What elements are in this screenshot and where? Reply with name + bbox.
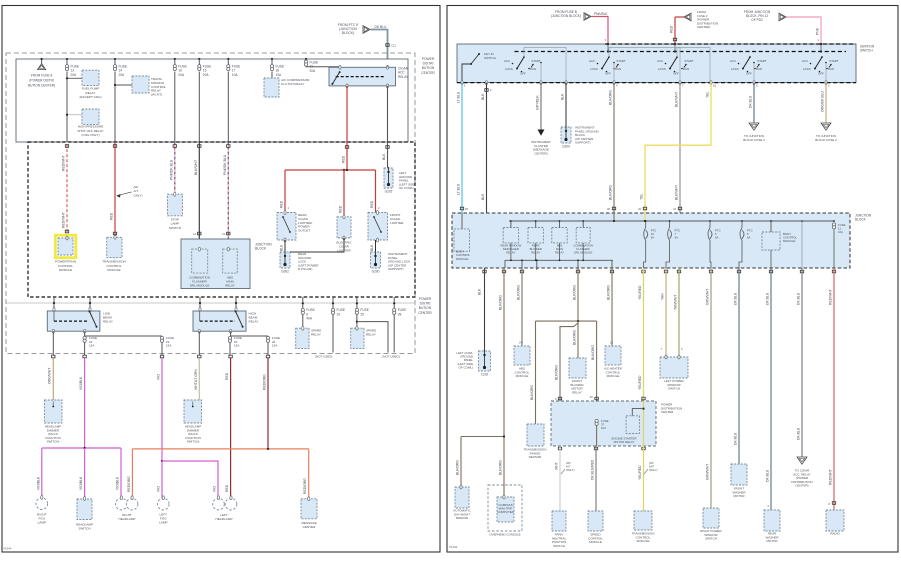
- svg-text:WHT: WHT: [555, 462, 559, 470]
- svg-text:BLK/ORG: BLK/ORG: [456, 460, 460, 475]
- svg-text:VIO/BLK: VIO/BLK: [79, 376, 83, 390]
- svg-text:DK BLU: DK BLU: [734, 432, 738, 445]
- svg-text:BLK/WHT: BLK/WHT: [194, 160, 198, 175]
- svg-text:PNK/DK BLU: PNK/DK BLU: [169, 159, 173, 180]
- svg-text:RED/WHT: RED/WHT: [829, 469, 833, 485]
- svg-text:ACC: ACC: [504, 59, 510, 63]
- svg-text:RED/ORG: RED/ORG: [263, 374, 267, 390]
- svg-text:WHT/LT GRN: WHT/LT GRN: [194, 369, 198, 390]
- svg-text:LOCK: LOCK: [590, 67, 598, 71]
- svg-text:RED/WHT: RED/WHT: [62, 212, 66, 228]
- svg-text:DK BLU: DK BLU: [749, 95, 753, 108]
- svg-text:DK BLU: DK BLU: [797, 292, 801, 305]
- svg-text:RED: RED: [280, 200, 284, 208]
- svg-text:G202: G202: [385, 190, 393, 194]
- svg-text:GRY/BLK: GRY/BLK: [536, 95, 540, 110]
- svg-text:BLK: BLK: [382, 153, 386, 160]
- svg-text:ACC: ACC: [589, 59, 595, 63]
- svg-text:RUN: RUN: [615, 67, 621, 71]
- svg-text:RUN: RUN: [756, 67, 762, 71]
- svg-text:RED: RED: [225, 372, 229, 380]
- svg-text:LT BLU: LT BLU: [457, 183, 461, 195]
- svg-text:START: START: [531, 59, 540, 63]
- svg-text:RUN: RUN: [828, 67, 834, 71]
- svg-text:DK BLU: DK BLU: [375, 25, 388, 29]
- svg-text:RED: RED: [110, 212, 114, 220]
- svg-text:(NOT USED): (NOT USED): [382, 355, 399, 359]
- svg-text:RED: RED: [225, 484, 229, 492]
- svg-text:76344: 76344: [3, 547, 12, 551]
- svg-text:DK BLU: DK BLU: [766, 292, 770, 305]
- svg-text:TO JUNCTIONBLOCK FUSE 3: TO JUNCTIONBLOCK FUSE 3: [743, 134, 765, 142]
- svg-text:TAN/WHT: TAN/WHT: [674, 295, 678, 310]
- svg-text:PNK/BLK: PNK/BLK: [594, 12, 608, 16]
- svg-text:10: 10: [713, 84, 717, 88]
- svg-text:LOCK: LOCK: [803, 67, 811, 71]
- svg-text:ORG/DK BLU: ORG/DK BLU: [821, 91, 825, 112]
- svg-text:ENGINE STARTERMOTOR RELAY: ENGINE STARTERMOTOR RELAY: [611, 437, 636, 445]
- svg-text:START: START: [829, 59, 838, 63]
- svg-text:VIO/BLK: VIO/BLK: [79, 476, 83, 490]
- svg-text:RUN: RUN: [530, 67, 536, 71]
- svg-text:BLK: BLK: [481, 93, 485, 100]
- svg-text:TAN: TAN: [661, 293, 665, 300]
- svg-text:G200: G200: [562, 145, 570, 149]
- svg-text:POWERDISTRIBUTIONCENTER: POWERDISTRIBUTIONCENTER: [421, 57, 435, 75]
- svg-text:DK BLU: DK BLU: [734, 292, 738, 305]
- svg-text:SPARERELAY: SPARERELAY: [366, 329, 376, 337]
- svg-text:RED/WHT: RED/WHT: [62, 155, 66, 171]
- svg-text:LEFTFOGLAMP: LEFTFOGLAMP: [159, 513, 167, 525]
- svg-text:RED: RED: [670, 25, 674, 33]
- svg-text:YEL/RED: YEL/RED: [638, 285, 642, 300]
- svg-text:BLK/ORG: BLK/ORG: [609, 185, 613, 200]
- svg-text:VIO: VIO: [157, 374, 161, 380]
- svg-text:G200: G200: [372, 270, 380, 274]
- svg-text:BLK/ORG: BLK/ORG: [499, 460, 503, 475]
- svg-text:C11: C11: [391, 44, 396, 48]
- svg-text:BLK/ORG: BLK/ORG: [573, 285, 577, 300]
- svg-text:HEADLAMPSWITCH: HEADLAMPSWITCH: [76, 523, 93, 531]
- svg-text:76102: 76102: [449, 545, 458, 549]
- svg-text:VIO/BLK: VIO/BLK: [36, 476, 40, 490]
- svg-text:DK BLU: DK BLU: [797, 427, 801, 440]
- svg-text:RED: RED: [370, 200, 374, 208]
- svg-text:(NOT USED): (NOT USED): [315, 355, 332, 359]
- svg-text:ACC: ACC: [730, 59, 736, 63]
- svg-text:BLK: BLK: [370, 244, 374, 251]
- svg-text:BLK/WHT: BLK/WHT: [675, 185, 679, 200]
- svg-text:DK BLU/RED: DK BLU/RED: [591, 459, 595, 480]
- svg-text:G302: G302: [281, 270, 289, 274]
- svg-text:LOCK: LOCK: [658, 67, 666, 71]
- svg-text:VIO/BLK: VIO/BLK: [116, 476, 120, 490]
- svg-text:DK BLU: DK BLU: [766, 469, 770, 482]
- svg-text:BLK/ORG: BLK/ORG: [607, 285, 611, 300]
- svg-text:LT BLU: LT BLU: [457, 91, 461, 103]
- svg-text:BLK: BLK: [561, 93, 565, 100]
- svg-text:BLK/WHT: BLK/WHT: [675, 92, 679, 107]
- svg-text:RED/ORG: RED/ORG: [303, 478, 307, 494]
- svg-text:PNK: PNK: [816, 27, 820, 35]
- svg-text:ACC: ACC: [802, 59, 808, 63]
- svg-text:BLK/ORG: BLK/ORG: [517, 285, 521, 300]
- svg-text:YEL: YEL: [706, 91, 710, 98]
- svg-text:YEL/RED: YEL/RED: [638, 465, 642, 480]
- svg-text:POWERDISTRIBUTIONCENTER: POWERDISTRIBUTIONCENTER: [418, 297, 432, 315]
- svg-text:BLK/ORG: BLK/ORG: [591, 345, 595, 360]
- svg-text:RED/WHT: RED/WHT: [829, 289, 833, 305]
- svg-text:GRN/WHT: GRN/WHT: [706, 289, 710, 305]
- svg-text:FROM FUSE B(JUNCTION BLOCK): FROM FUSE B(JUNCTION BLOCK): [551, 10, 581, 18]
- svg-text:ORG/WHT: ORG/WHT: [48, 368, 52, 384]
- svg-text:BLK/ORG: BLK/ORG: [530, 385, 534, 400]
- svg-text:VIO: VIO: [157, 486, 161, 492]
- svg-text:COMBINATIONFLASHER/DRL MODULE: COMBINATIONFLASHER/DRL MODULE: [189, 276, 210, 288]
- svg-text:START: START: [757, 59, 766, 63]
- svg-text:TO JUNCTIONBLOCK FUSE 2: TO JUNCTIONBLOCK FUSE 2: [815, 134, 837, 142]
- svg-text:BLK/ORG: BLK/ORG: [573, 330, 577, 345]
- svg-text:RED: RED: [342, 155, 346, 163]
- svg-text:VIO: VIO: [213, 486, 217, 492]
- svg-text:C202: C202: [481, 373, 489, 377]
- svg-text:START: START: [684, 59, 693, 63]
- svg-text:BLK/ORG: BLK/ORG: [499, 295, 503, 310]
- svg-text:SPARERELAY: SPARERELAY: [311, 329, 321, 337]
- svg-text:LOCK: LOCK: [505, 67, 513, 71]
- svg-text:YEL: YEL: [640, 193, 644, 200]
- svg-text:BLK: BLK: [481, 193, 485, 200]
- svg-text:GRN/WHT: GRN/WHT: [706, 464, 710, 480]
- svg-text:OVERHEAD CONSOLE: OVERHEAD CONSOLE: [489, 533, 520, 537]
- svg-text:YEL/RED: YEL/RED: [638, 375, 642, 390]
- svg-text:RED/ORG: RED/ORG: [127, 476, 131, 492]
- svg-text:COMBINATIONFLASHER/DRL MODULE: COMBINATIONFLASHER/DRL MODULE: [573, 244, 593, 255]
- svg-text:RED: RED: [339, 205, 343, 213]
- svg-text:LOCK: LOCK: [731, 67, 739, 71]
- svg-text:RUN: RUN: [683, 67, 689, 71]
- svg-text:BLK/ORG: BLK/ORG: [555, 365, 559, 380]
- svg-text:ACC: ACC: [657, 59, 663, 63]
- svg-text:RADIO: RADIO: [830, 532, 840, 536]
- svg-text:COMPASSMINI-TRIPCOMPUTER: COMPASSMINI-TRIPCOMPUTER: [497, 503, 514, 514]
- svg-text:PNK/DK BLU: PNK/DK BLU: [223, 154, 227, 175]
- svg-text:FROM FUSE 8(POWER DISTRIBUTION: FROM FUSE 8(POWER DISTRIBUTION CENTER): [28, 74, 55, 88]
- svg-text:BLK: BLK: [478, 288, 482, 295]
- svg-text:START: START: [616, 59, 625, 63]
- svg-text:BLK: BLK: [280, 244, 284, 251]
- svg-text:MESSAGECENTER: MESSAGECENTER: [301, 521, 316, 529]
- svg-text:BLK/ORG: BLK/ORG: [609, 90, 613, 105]
